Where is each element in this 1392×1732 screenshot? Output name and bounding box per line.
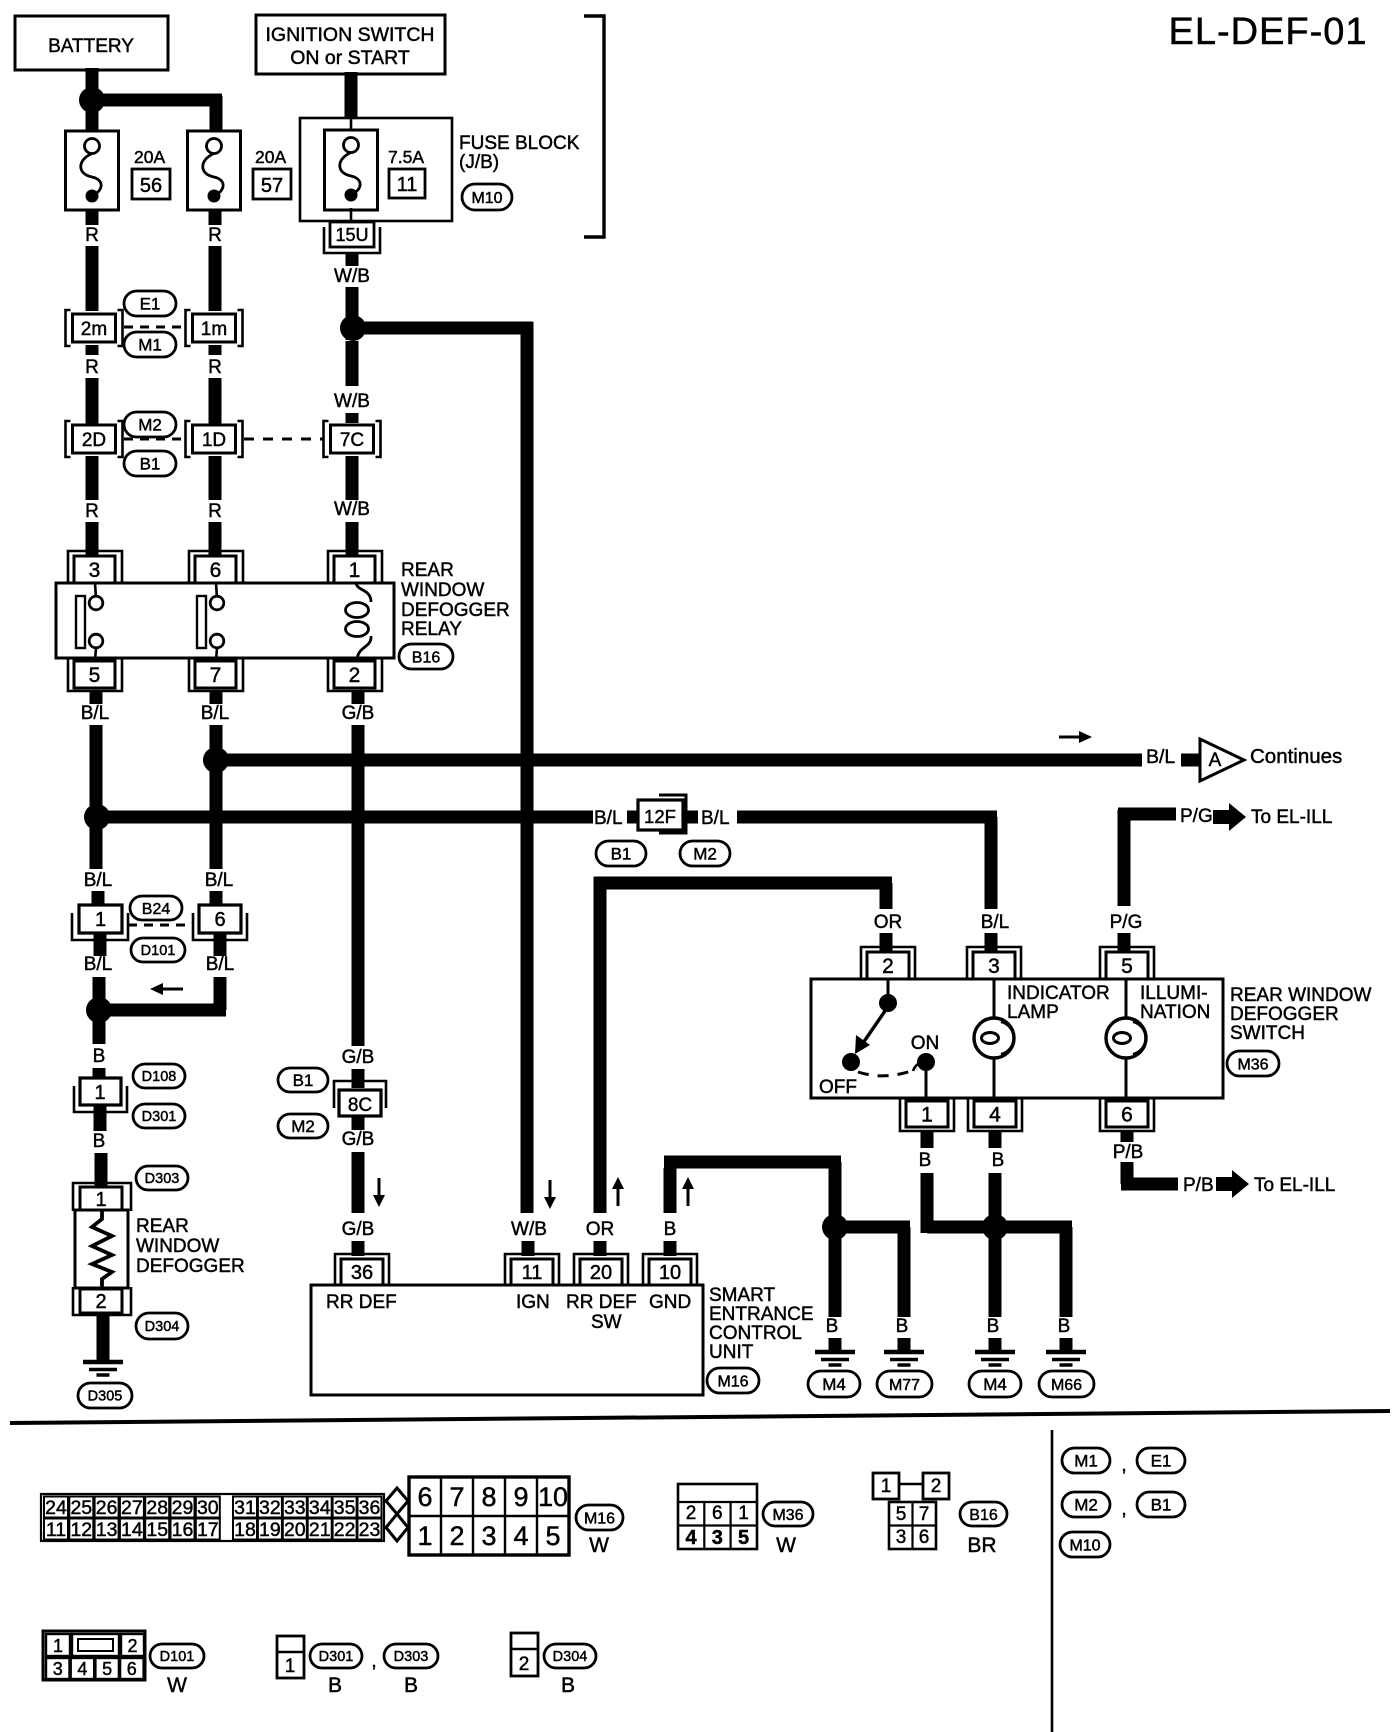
wire B/L to A [216, 754, 1142, 767]
svg-text:36: 36 [351, 1262, 373, 1284]
svg-text:14: 14 [121, 1519, 143, 1541]
svg-text:7: 7 [919, 1504, 930, 1525]
svg-text:4: 4 [77, 1659, 87, 1679]
svg-text:2: 2 [519, 1654, 530, 1675]
comma [371, 1651, 376, 1672]
connector 1m [186, 310, 243, 346]
svg-text:27: 27 [121, 1497, 143, 1519]
connector id M77 [877, 1371, 932, 1397]
connector grid D304 [511, 1633, 538, 1676]
svg-text:12F: 12F [644, 806, 676, 827]
svg-text:3: 3 [712, 1527, 723, 1549]
divider line [1051, 1430, 1054, 1732]
label B/L [205, 870, 234, 891]
svg-text:BR: BR [967, 1534, 996, 1557]
label B/L [81, 703, 110, 724]
connector id B16 [399, 644, 453, 669]
connector id M1 [124, 332, 176, 357]
svg-text:P/B: P/B [1113, 1142, 1144, 1163]
dashed link [128, 924, 193, 927]
svg-text:D301: D301 [142, 1109, 177, 1125]
svg-text:LAMP: LAMP [1007, 1002, 1059, 1023]
ground [83, 1362, 123, 1375]
label R [85, 225, 99, 246]
label W/B [334, 266, 370, 287]
label G/B [342, 1047, 375, 1068]
svg-text:B/L: B/L [81, 703, 110, 724]
svg-text:B: B [664, 1219, 677, 1240]
label B [404, 1674, 418, 1697]
svg-text:1D: 1D [202, 430, 226, 451]
label B [987, 1316, 1000, 1337]
svg-text:ON or START: ON or START [290, 47, 410, 69]
svg-text:INDICATOR: INDICATOR [1007, 983, 1110, 1004]
svg-text:5: 5 [545, 1521, 560, 1551]
svg-text:M2: M2 [693, 845, 717, 864]
ground M66 [1046, 1352, 1086, 1365]
label P/G [1180, 806, 1213, 827]
connector id M4 [969, 1371, 1021, 1397]
comma [1121, 1455, 1126, 1476]
connector id M36 [1227, 1051, 1279, 1076]
wire OR stub [594, 1241, 607, 1256]
wire col1 [99, 933, 100, 1079]
svg-text:G/B: G/B [342, 1129, 375, 1150]
svg-text:REAR WINDOW: REAR WINDOW [1230, 985, 1372, 1006]
label B [664, 1219, 677, 1240]
svg-text:D303: D303 [394, 1649, 429, 1665]
svg-text:B16: B16 [412, 649, 441, 666]
ignition switch [256, 15, 445, 74]
svg-text:M4: M4 [983, 1375, 1007, 1394]
svg-text:36: 36 [359, 1497, 381, 1519]
svg-text:REAR: REAR [136, 1216, 189, 1237]
svg-text:1: 1 [95, 909, 106, 931]
connector id E1 [1137, 1448, 1185, 1473]
connector id M66 [1039, 1371, 1094, 1397]
connector 2D [66, 421, 123, 457]
indicator lamp [974, 979, 1110, 1101]
arrow down [544, 1180, 556, 1209]
wire R col1 [86, 210, 99, 556]
svg-text:15: 15 [146, 1519, 168, 1541]
wire to ground M66 [995, 1227, 1072, 1317]
connector 12F [627, 795, 698, 833]
wire to defogger [100, 1106, 101, 1188]
wire stub [989, 1338, 1002, 1352]
svg-text:UNIT: UNIT [709, 1342, 754, 1363]
svg-text:B: B [93, 1046, 106, 1067]
wire stub [1060, 1338, 1073, 1352]
svg-text:28: 28 [146, 1497, 168, 1519]
svg-text:B/L: B/L [84, 954, 113, 975]
svg-text:B: B [1058, 1316, 1071, 1337]
svg-text:18: 18 [234, 1519, 256, 1541]
junction battery [79, 87, 105, 113]
wire B/L col2 [210, 691, 223, 906]
svg-text:M36: M36 [1237, 1056, 1268, 1073]
label W/B [334, 391, 370, 412]
svg-text:R: R [208, 501, 222, 522]
svg-text:B1: B1 [1151, 1496, 1172, 1515]
ground M77 [884, 1352, 924, 1365]
label B [919, 1150, 932, 1171]
svg-text:7: 7 [210, 664, 222, 687]
svg-text:3: 3 [896, 1527, 907, 1548]
svg-text:1: 1 [881, 1476, 892, 1497]
svg-text:B1: B1 [611, 845, 632, 864]
svg-text:D108: D108 [142, 1069, 177, 1085]
label B/L [701, 808, 730, 829]
svg-text:(J/B): (J/B) [459, 152, 499, 173]
svg-text:IGN: IGN [516, 1292, 550, 1313]
svg-text:B1: B1 [140, 455, 161, 474]
svg-text:56: 56 [140, 175, 162, 197]
defogger label [136, 1216, 245, 1277]
switch label [1230, 985, 1372, 1044]
svg-text:M2: M2 [138, 416, 162, 435]
svg-text:11: 11 [46, 1519, 66, 1541]
svg-text:11: 11 [522, 1262, 543, 1284]
label B [1058, 1316, 1071, 1337]
svg-text:13: 13 [96, 1519, 118, 1541]
label G/B [342, 703, 375, 724]
svg-text:B: B [896, 1316, 909, 1337]
svg-text:7C: 7C [340, 430, 364, 451]
svg-text:23: 23 [359, 1519, 381, 1541]
svg-text:1m: 1m [201, 319, 227, 340]
connector id M2 [124, 412, 176, 437]
label W [589, 1534, 609, 1557]
svg-text:M1: M1 [138, 336, 162, 355]
connector id D304 [544, 1644, 596, 1668]
svg-text:ON: ON [911, 1033, 940, 1054]
svg-text:M2: M2 [1074, 1496, 1098, 1515]
svg-text:8C: 8C [348, 1095, 372, 1116]
svg-text:B: B [561, 1674, 575, 1697]
connector id B16 [960, 1502, 1007, 1526]
svg-text:B: B [404, 1674, 418, 1697]
svg-text:W: W [776, 1534, 796, 1557]
junction B [822, 1214, 848, 1240]
svg-text:15U: 15U [335, 225, 368, 245]
arrow down [373, 1178, 385, 1207]
svg-text:REAR: REAR [401, 560, 454, 581]
svg-text:M1: M1 [1074, 1452, 1098, 1471]
svg-text:20A: 20A [134, 147, 165, 167]
svg-text:11: 11 [397, 174, 418, 196]
svg-text:ENTRANCE: ENTRANCE [709, 1304, 814, 1325]
svg-text:M66: M66 [1051, 1377, 1082, 1394]
arrow up [612, 1177, 624, 1206]
svg-text:R: R [208, 357, 222, 378]
dashed link 2D-1D [124, 438, 186, 441]
junction B/L [84, 804, 110, 830]
junction B [86, 997, 112, 1023]
svg-text:W/B: W/B [511, 1219, 547, 1240]
svg-text:2: 2 [686, 1503, 697, 1524]
svg-text:R: R [208, 225, 222, 246]
connector grid M16 small [41, 1494, 384, 1541]
wire pin1 to junction [927, 1131, 995, 1233]
svg-text:DEFOGGER: DEFOGGER [401, 600, 510, 621]
svg-text:20: 20 [590, 1262, 612, 1284]
svg-text:5: 5 [896, 1504, 907, 1525]
label B/L [206, 954, 235, 975]
svg-text:P/G: P/G [1110, 912, 1143, 933]
svg-text:WINDOW: WINDOW [136, 1236, 219, 1257]
svg-text:7: 7 [449, 1482, 464, 1512]
svg-text:D304: D304 [145, 1319, 180, 1335]
svg-text:1: 1 [921, 1104, 933, 1127]
svg-text:EL-DEF-01: EL-DEF-01 [1168, 11, 1367, 53]
label To EL-ILL [1254, 1175, 1335, 1196]
label BR [967, 1534, 996, 1557]
svg-text:B/L: B/L [701, 808, 730, 829]
label R [208, 357, 222, 378]
label B [896, 1316, 909, 1337]
svg-text:W/B: W/B [334, 266, 370, 287]
svg-text:,: , [371, 1651, 376, 1672]
svg-text:1: 1 [349, 559, 361, 582]
svg-text:D101: D101 [160, 1649, 195, 1665]
connector 1 B24 [72, 905, 128, 940]
svg-text:35: 35 [334, 1497, 356, 1519]
svg-text:2: 2 [931, 1476, 942, 1497]
connector 15U [324, 222, 380, 253]
connector 8C [334, 1081, 386, 1116]
connector id D305 [78, 1383, 132, 1408]
wire to ground M77 [835, 1227, 910, 1317]
connector id B1 [1137, 1492, 1185, 1517]
svg-text:M16: M16 [584, 1510, 615, 1527]
svg-text:B/L: B/L [981, 912, 1010, 933]
svg-text:1: 1 [94, 1082, 105, 1104]
svg-text:6: 6 [417, 1482, 432, 1512]
connector id B1 [596, 841, 646, 866]
label P/B [1113, 1142, 1144, 1163]
label OR [874, 912, 903, 933]
svg-text:17: 17 [197, 1519, 219, 1541]
svg-text:1: 1 [285, 1656, 296, 1677]
wire P/G [1118, 810, 1176, 952]
junction B [982, 1214, 1008, 1240]
svg-text:P/G: P/G [1180, 806, 1213, 827]
wire to ground [97, 1316, 110, 1361]
svg-text:M2: M2 [291, 1117, 315, 1136]
svg-text:29: 29 [172, 1497, 194, 1519]
arrow up [682, 1177, 694, 1206]
fuse block J/B [300, 118, 452, 223]
separator line [10, 1411, 1390, 1423]
svg-text:R: R [85, 225, 99, 246]
label B/L [594, 808, 623, 829]
label B/L [84, 870, 113, 891]
svg-text:5: 5 [89, 664, 101, 687]
svg-text:4: 4 [685, 1527, 697, 1549]
wire col2 to junction [99, 933, 226, 1010]
connector id M16 [707, 1368, 759, 1393]
label W [776, 1534, 796, 1557]
label R [85, 501, 99, 522]
svg-text:D303: D303 [145, 1171, 180, 1187]
junction W/B [340, 315, 366, 341]
label B/L [1146, 746, 1175, 768]
relay B16 rear window defogger relay [56, 551, 394, 691]
svg-text:24: 24 [45, 1497, 67, 1519]
label W/B [334, 499, 370, 520]
svg-text:20A: 20A [255, 147, 286, 167]
wire stub [898, 1338, 911, 1352]
illumination lamp [1106, 979, 1210, 1101]
connector grid D301 [277, 1636, 304, 1678]
svg-text:B: B [93, 1131, 106, 1152]
svg-text:19: 19 [259, 1519, 281, 1541]
svg-text:D304: D304 [553, 1649, 588, 1665]
fuse block label [459, 133, 580, 173]
svg-text:G/B: G/B [342, 1219, 375, 1240]
svg-text:9: 9 [513, 1482, 528, 1512]
svg-text:2D: 2D [82, 430, 106, 451]
wire R col2 [209, 210, 222, 556]
wire B/L col1 [96, 691, 98, 906]
svg-text:OR: OR [874, 912, 903, 933]
svg-text:B: B [987, 1316, 1000, 1337]
connector id M10 [1060, 1532, 1110, 1557]
connector id B24 [130, 896, 182, 920]
label B [992, 1150, 1005, 1171]
wire pin4 down [989, 1131, 1002, 1227]
label P/B [1183, 1175, 1214, 1196]
connector id M2 [680, 841, 730, 866]
svg-text:6: 6 [712, 1503, 723, 1524]
svg-text:16: 16 [172, 1519, 194, 1541]
svg-text:R: R [85, 357, 99, 378]
wire W/B [346, 253, 359, 340]
label G/B [342, 1129, 375, 1150]
svg-text:M10: M10 [1069, 1537, 1100, 1554]
svg-text:SWITCH: SWITCH [1230, 1023, 1305, 1044]
svg-text:OFF: OFF [819, 1077, 857, 1098]
svg-text:2: 2 [882, 955, 894, 978]
svg-text:6: 6 [1121, 1104, 1133, 1127]
bracket [584, 16, 604, 237]
svg-text:G/B: G/B [342, 703, 375, 724]
label R [208, 501, 222, 522]
connector grid M16 large [409, 1477, 569, 1555]
svg-text:W: W [589, 1534, 609, 1557]
connector id D101 [150, 1644, 204, 1668]
arrow right [1059, 731, 1092, 743]
svg-text:,: , [1121, 1499, 1126, 1520]
wire OR [594, 877, 892, 1213]
svg-text:25: 25 [70, 1497, 92, 1519]
smart entrance control unit M16 [311, 1254, 703, 1395]
switch contacts [819, 979, 939, 1101]
svg-text:B24: B24 [142, 901, 171, 918]
svg-text:10: 10 [659, 1262, 681, 1284]
svg-text:CONTROL: CONTROL [709, 1323, 802, 1344]
svg-text:20: 20 [284, 1519, 306, 1541]
svg-text:W: W [167, 1674, 187, 1697]
label W/B [511, 1219, 547, 1240]
svg-text:RR DEF: RR DEF [566, 1292, 637, 1313]
svg-text:B: B [919, 1150, 932, 1171]
label B [826, 1316, 839, 1337]
label To EL-ILL [1251, 807, 1332, 828]
connector id D301 [310, 1644, 362, 1668]
svg-text:3: 3 [53, 1659, 63, 1679]
connector grid B16 [873, 1473, 949, 1549]
relay label [401, 560, 510, 640]
rear window defogger element [73, 1183, 131, 1315]
wire B/L to switch pin 3 [737, 817, 997, 952]
dashed link 1D-7C [244, 438, 324, 441]
connector id M1 [1062, 1448, 1110, 1473]
svg-text:22: 22 [334, 1519, 356, 1541]
label B [93, 1131, 106, 1152]
svg-text:BATTERY: BATTERY [48, 36, 134, 57]
fuse 57 20A [188, 131, 292, 210]
svg-text:2: 2 [127, 1636, 137, 1656]
connector id D108 [133, 1064, 185, 1088]
svg-text:10: 10 [538, 1482, 568, 1512]
wire B from GND pin [664, 1162, 841, 1256]
svg-text:2: 2 [95, 1291, 106, 1313]
wire battery feed [92, 68, 222, 131]
connector id M10 [462, 184, 512, 210]
connector id M2 [1062, 1492, 1110, 1517]
label P/G [1110, 912, 1143, 933]
connector id M36 [763, 1502, 813, 1526]
svg-text:1: 1 [53, 1636, 63, 1656]
svg-text:2m: 2m [81, 319, 107, 340]
label B/L [84, 954, 113, 975]
label R [208, 225, 222, 246]
svg-text:B: B [328, 1674, 342, 1697]
arrow left [150, 983, 183, 995]
svg-text:B/L: B/L [1146, 746, 1175, 768]
wire P/B [1121, 1131, 1178, 1184]
svg-text:M77: M77 [889, 1377, 920, 1394]
svg-text:To EL-ILL: To EL-ILL [1251, 807, 1332, 828]
svg-text:GND: GND [649, 1292, 691, 1313]
svg-text:M10: M10 [471, 190, 502, 207]
svg-text:RELAY: RELAY [401, 619, 462, 640]
label W [167, 1674, 187, 1697]
svg-text:34: 34 [309, 1497, 331, 1519]
connector grid M36 [678, 1484, 757, 1549]
svg-text:4: 4 [513, 1521, 528, 1551]
wire to ground M4 left [829, 1227, 842, 1317]
svg-text:21: 21 [309, 1519, 331, 1541]
arrow To EL-ILL [1216, 1170, 1249, 1198]
arrow To EL-ILL [1213, 803, 1246, 831]
connector id B1 [124, 451, 176, 476]
svg-text:B/L: B/L [206, 954, 235, 975]
svg-text:B/L: B/L [594, 808, 623, 829]
svg-text:12: 12 [70, 1519, 92, 1541]
svg-text:5: 5 [102, 1659, 112, 1679]
connector id D101 [131, 938, 185, 962]
wire W/B to relay [346, 456, 359, 556]
wire G/B [352, 691, 365, 1256]
svg-text:A: A [1209, 750, 1222, 771]
diamonds [386, 1488, 408, 1541]
svg-text:3: 3 [988, 955, 1000, 978]
label B [93, 1046, 106, 1067]
wire B/L to 12F [97, 811, 593, 824]
